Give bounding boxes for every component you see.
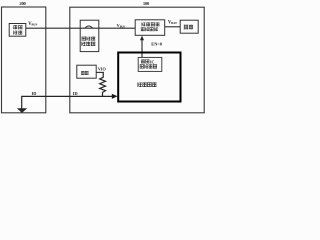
svg-text:ID: ID [73, 91, 78, 96]
svg-text:VIO: VIO [98, 66, 107, 71]
svg-text:BUS: BUS [120, 26, 126, 29]
svg-text:BAT: BAT [171, 21, 177, 25]
svg-text:100: 100 [143, 1, 150, 6]
svg-text:EN=0: EN=0 [151, 41, 163, 46]
svg-text:200: 200 [19, 1, 26, 6]
svg-text:ID: ID [32, 91, 37, 96]
svg-text:IC: IC [150, 59, 155, 64]
svg-text:BUS: BUS [32, 23, 38, 27]
